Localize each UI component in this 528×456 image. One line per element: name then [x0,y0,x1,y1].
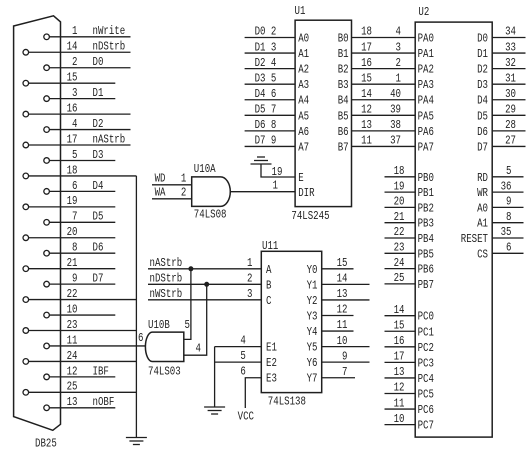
svg-text:D1: D1 [477,47,488,61]
svg-text:WR: WR [477,186,488,200]
svg-text:5: 5 [271,71,276,85]
svg-text:PC5: PC5 [418,388,434,402]
svg-text:D7: D7 [477,140,488,154]
wire U2 D1 stub [492,52,525,54]
svg-text:16: 16 [67,101,78,115]
svg-text:15: 15 [394,318,405,332]
wire U2 PC1 stub [385,330,416,332]
svg-text:B6: B6 [338,125,349,139]
wire U1 B2 to U2 PA2 [352,68,416,70]
svg-text:A0: A0 [477,201,488,215]
wire D1 to U1 A1 [245,52,296,54]
ground symbol U11 enables [204,406,225,408]
svg-text:E: E [298,171,303,185]
svg-text:14: 14 [67,40,78,54]
DB25 pin 20 contact circle [23,235,29,241]
svg-text:38: 38 [390,118,401,132]
wire DB25 pin 4 [49,129,130,131]
svg-text:A4: A4 [298,94,309,108]
svg-text:nDStrb: nDStrb [150,271,183,285]
svg-text:Y3: Y3 [307,309,318,323]
svg-text:D5: D5 [255,103,266,117]
svg-text:17: 17 [67,132,78,146]
svg-text:7: 7 [72,210,77,224]
svg-text:6: 6 [138,331,143,345]
svg-text:7: 7 [342,365,347,379]
wire U2 PB2 stub [385,206,416,208]
svg-text:5: 5 [72,148,77,162]
svg-text:13: 13 [67,395,78,409]
wire ground bus vertical [135,176,137,438]
svg-text:13: 13 [337,287,348,301]
svg-text:4: 4 [196,342,201,356]
svg-text:Y5: Y5 [307,341,318,355]
wire D3 to U1 A3 [245,83,296,85]
svg-text:3: 3 [72,86,77,100]
svg-text:D3: D3 [93,148,104,162]
svg-text:A2: A2 [298,63,309,77]
wire U2 D6 stub [492,130,525,132]
svg-text:23: 23 [394,241,405,255]
wire U2 A1 stub [492,222,523,224]
wire DB25 pin 20 [29,237,116,239]
svg-text:D0: D0 [477,32,488,46]
svg-text:D0: D0 [255,25,266,39]
svg-text:D1: D1 [93,86,104,100]
wire U11 E2 to ground bus [215,361,262,363]
svg-text:B2: B2 [338,63,349,77]
connector J1 DB25 body outline [14,16,61,431]
svg-text:11: 11 [337,318,348,332]
svg-text:29: 29 [505,103,516,117]
svg-text:PB3: PB3 [418,217,434,231]
DB25 pin 1 contact circle [44,34,50,40]
svg-text:17: 17 [394,350,405,364]
svg-text:PA6: PA6 [418,125,434,139]
wire DB25 pin 7 [49,221,115,223]
wire U2 D5 stub [492,114,525,116]
svg-text:16: 16 [361,56,372,70]
DB25 pin 5 contact circle [44,158,50,164]
svg-text:20: 20 [394,195,405,209]
DB25 pin 2 contact circle [44,65,50,71]
svg-text:PA3: PA3 [418,78,434,92]
wire WD to U10A pin 1 [152,184,192,186]
wire U2 D7 stub [492,145,525,147]
svg-text:3: 3 [271,40,276,54]
svg-text:2: 2 [181,185,186,199]
wire U2 WR stub [492,191,523,193]
svg-text:6: 6 [72,179,77,193]
wire DB25 pin 10 [49,314,115,316]
DB25 pin 25 contact circle [23,390,29,396]
svg-text:Y1: Y1 [307,278,318,292]
wire DB25 pin 2 [49,67,130,69]
wire U2 PC3 stub [385,361,416,363]
svg-text:nDStrb: nDStrb [93,40,126,54]
svg-text:D2: D2 [255,56,266,70]
svg-text:1: 1 [272,179,277,193]
svg-text:D2: D2 [93,117,104,131]
svg-text:nAStrb: nAStrb [93,132,126,146]
wire U2 RD stub [492,176,523,178]
svg-text:D6: D6 [477,125,488,139]
svg-text:30: 30 [505,87,516,101]
svg-text:PC7: PC7 [418,419,434,433]
DB25 pin 9 contact circle [44,281,50,287]
DB25 pin 23 contact circle [23,328,29,334]
svg-text:D6: D6 [93,241,104,255]
wire DB25 pin 16 [29,113,131,115]
wire DB25 pin 24 [29,360,137,362]
wire U11 Y2 stub [322,299,370,301]
svg-text:PA7: PA7 [418,140,434,154]
svg-text:Y7: Y7 [307,372,318,386]
wire DB25 pin 19 [29,206,116,208]
svg-text:6: 6 [506,241,511,255]
svg-text:U10B: U10B [148,318,170,332]
junction nDStrb / U10B-4 [205,282,209,286]
svg-text:PA0: PA0 [418,32,434,46]
DB25 pin 22 contact circle [23,297,29,303]
and-gate U10A body [192,177,231,207]
wire U1 B4 to U2 PA4 [352,99,416,101]
svg-text:9: 9 [271,134,276,148]
svg-text:74LS03: 74LS03 [148,365,181,379]
svg-text:18: 18 [394,164,405,178]
svg-text:18: 18 [67,163,78,177]
svg-text:PB6: PB6 [418,263,434,277]
wire D7 to U1 A7 [245,145,296,147]
svg-text:25: 25 [394,271,405,285]
wire U2 D3 stub [492,83,525,85]
wire DB25 pin 15 [29,82,116,84]
DB25 pin 16 contact circle [23,111,29,117]
svg-text:PA4: PA4 [418,94,434,108]
svg-text:5: 5 [185,318,190,332]
wire nAStrb to U10B pin 5 [184,269,191,340]
svg-text:D3: D3 [255,71,266,85]
junction nAStrb / U10B-5 [189,267,193,271]
svg-text:D7: D7 [93,272,104,286]
svg-text:Y0: Y0 [307,263,318,277]
svg-text:10: 10 [394,412,405,426]
svg-text:1: 1 [181,171,186,185]
DB25 pin 18 contact circle [23,173,29,179]
svg-text:2: 2 [396,56,401,70]
svg-text:D3: D3 [477,78,488,92]
svg-text:15: 15 [67,71,78,85]
DB25 pin 4 contact circle [44,127,50,133]
svg-text:33: 33 [505,40,516,54]
svg-text:PC1: PC1 [418,325,434,339]
wire DB25 pin 11 [49,345,145,347]
svg-text:PC2: PC2 [418,341,434,355]
svg-text:B1: B1 [338,47,349,61]
svg-text:36: 36 [501,179,512,193]
wire DB25 pin 3 [49,98,115,100]
svg-text:PA1: PA1 [418,47,434,61]
svg-text:D6: D6 [255,118,266,132]
wire nDStrb to U11 B [148,283,261,285]
svg-text:PB1: PB1 [418,186,434,200]
wire DB25 pin 22 [29,299,137,301]
svg-text:PB5: PB5 [418,247,434,261]
svg-text:B7: B7 [338,140,349,154]
DB25 pin 19 contact circle [23,204,29,210]
svg-text:35: 35 [501,225,512,239]
wire DB25 pin 23 [29,330,137,332]
DB25 pin 8 contact circle [44,250,50,256]
svg-text:22: 22 [394,225,405,239]
svg-text:13: 13 [361,118,372,132]
wire U2 PB3 stub [385,222,416,224]
wire DB25 pin 17 [29,144,131,146]
svg-text:PB0: PB0 [418,171,434,185]
svg-text:nOBF: nOBF [93,395,115,409]
svg-text:11: 11 [361,134,372,148]
svg-text:A7: A7 [298,140,309,154]
wire U2 D0 stub [492,37,525,39]
svg-text:21: 21 [394,210,405,224]
ground symbol left bus [126,437,147,439]
DB25 pin 17 contact circle [23,142,29,148]
wire U1 B5 to U2 PA5 [352,114,416,116]
DB25 pin 14 contact circle [23,49,29,55]
svg-text:1: 1 [247,256,252,270]
svg-text:6: 6 [240,365,245,379]
wire DB25 pin 6 [49,190,115,192]
svg-text:3: 3 [396,40,401,54]
svg-text:37: 37 [390,134,401,148]
svg-text:31: 31 [505,71,516,85]
wire U2 D4 stub [492,99,525,101]
svg-text:2: 2 [72,55,77,69]
wire U11 Y1 stub [322,283,370,285]
svg-text:14: 14 [337,272,348,286]
svg-text:U10A: U10A [194,162,216,176]
svg-text:PA5: PA5 [418,109,434,123]
svg-text:B4: B4 [338,94,349,108]
svg-text:B: B [266,278,271,292]
svg-text:5: 5 [240,349,245,363]
svg-text:DB25: DB25 [35,437,57,451]
svg-text:U11: U11 [262,239,278,253]
svg-text:74LS08: 74LS08 [194,207,227,221]
nand-gate U10B body [145,332,183,361]
svg-text:U1: U1 [295,4,306,18]
svg-text:10: 10 [337,334,348,348]
svg-text:25: 25 [67,380,78,394]
svg-text:D5: D5 [93,210,104,224]
wire U1 B0 to U2 PA0 [352,37,416,39]
wire DB25 pin 12 [49,376,115,378]
wire U11 Y3 stub [322,314,354,316]
wire U11 Y4 stub [322,330,354,332]
wire U1 B7 to U2 PA7 [352,145,416,147]
wire U11 E3 to VCC [245,378,261,408]
svg-text:nAStrb: nAStrb [150,256,183,270]
wire DB25 pin 13 [49,407,115,409]
svg-text:A: A [266,263,272,277]
svg-text:1: 1 [72,24,77,38]
svg-text:6: 6 [271,87,276,101]
wire DB25 pin 1 [49,36,130,38]
svg-text:A6: A6 [298,125,309,139]
svg-text:12: 12 [361,103,372,117]
svg-text:DIR: DIR [298,186,314,200]
DB25 pin 6 contact circle [44,189,50,195]
svg-text:40: 40 [390,87,401,101]
svg-text:E3: E3 [266,372,277,386]
svg-text:19: 19 [67,194,78,208]
svg-text:14: 14 [361,87,372,101]
svg-text:8: 8 [72,241,77,255]
svg-text:7: 7 [271,103,276,117]
svg-text:3: 3 [247,287,252,301]
svg-text:CS: CS [477,247,488,261]
svg-text:D5: D5 [477,109,488,123]
svg-text:D2: D2 [477,63,488,77]
wire U2 PC4 stub [385,377,416,379]
wire nWStrb to U11 C [148,299,261,301]
wire U11 Y0 stub [322,268,354,270]
svg-text:B0: B0 [338,32,349,46]
DB25 pin 15 contact circle [23,80,29,86]
svg-text:A5: A5 [298,109,309,123]
svg-text:17: 17 [361,40,372,54]
svg-text:VCC: VCC [238,410,254,424]
svg-text:12: 12 [394,381,405,395]
svg-text:28: 28 [505,118,516,132]
svg-text:WD: WD [155,171,166,185]
svg-text:Y2: Y2 [307,294,318,308]
svg-text:4: 4 [396,25,401,39]
svg-text:A1: A1 [298,47,309,61]
svg-text:D4: D4 [477,94,488,108]
svg-text:8: 8 [271,118,276,132]
wire D2 to U1 A2 [245,68,296,70]
svg-text:20: 20 [67,225,78,239]
wire D4 to U1 A4 [245,99,296,101]
wire DB25 pin 25 [29,391,137,393]
DB25 pin 7 contact circle [44,219,50,225]
svg-text:22: 22 [67,287,78,301]
svg-text:PB2: PB2 [418,201,434,215]
DB25 pin 24 contact circle [23,359,29,365]
svg-text:PC0: PC0 [418,310,434,324]
ground symbol U1 E [251,163,272,165]
svg-text:15: 15 [337,256,348,270]
svg-text:PC3: PC3 [418,356,434,370]
svg-text:19: 19 [394,179,405,193]
svg-text:C: C [266,294,271,308]
svg-text:10: 10 [67,302,78,316]
svg-text:nWrite: nWrite [93,24,126,38]
wire D5 to U1 A5 [245,114,296,116]
wire U11 E1 to ground bus [215,346,262,348]
DB25 pin 10 contact circle [44,312,50,318]
wire U2 PC0 stub [385,315,416,317]
svg-text:39: 39 [390,103,401,117]
wire U2 PB6 stub [385,268,416,270]
svg-text:4: 4 [271,56,276,70]
DB25 pin 12 contact circle [44,374,50,380]
svg-text:A1: A1 [477,217,488,231]
svg-text:74LS245: 74LS245 [291,209,329,223]
svg-text:D7: D7 [255,134,266,148]
svg-text:nWStrb: nWStrb [150,287,183,301]
svg-text:D4: D4 [93,179,104,193]
ic U2 body [415,22,492,437]
ic U11 body [261,251,321,392]
svg-text:9: 9 [506,195,511,209]
svg-text:12: 12 [337,303,348,317]
svg-text:4: 4 [240,334,245,348]
svg-text:RD: RD [477,171,488,185]
svg-text:34: 34 [505,25,516,39]
wire U2 CS stub [492,252,523,254]
svg-text:RESET: RESET [461,232,488,246]
svg-text:12: 12 [67,364,78,378]
wire U2 PC2 stub [385,346,416,348]
svg-text:D0: D0 [93,55,104,69]
svg-text:9: 9 [342,349,347,363]
wire D6 to U1 A6 [245,130,296,132]
wire DB25 pin 5 [49,159,115,161]
wire WA to U10A pin 2 [152,198,192,200]
svg-text:1: 1 [396,71,401,85]
wire U1 B3 to U2 PA3 [352,83,416,85]
svg-text:21: 21 [67,256,78,270]
wire DB25 pin 8 [49,252,115,254]
wire U2 PC5 stub [385,393,416,395]
svg-text:U2: U2 [418,5,429,19]
svg-text:11: 11 [67,333,78,347]
svg-text:16: 16 [394,334,405,348]
wire U2 PB7 stub [385,283,416,285]
svg-text:13: 13 [394,365,405,379]
svg-text:2: 2 [271,25,276,39]
svg-text:WA: WA [155,185,167,199]
svg-text:5: 5 [506,164,511,178]
svg-text:Y4: Y4 [307,325,318,339]
svg-text:IBF: IBF [93,364,109,378]
svg-text:PC6: PC6 [418,403,434,417]
wire nDStrb to U10B pin 4 [184,284,207,355]
svg-text:24: 24 [67,349,78,363]
svg-text:D4: D4 [255,87,266,101]
svg-text:24: 24 [394,256,405,270]
svg-text:18: 18 [361,25,372,39]
wire E1-E2 ground vertical [214,347,216,407]
svg-text:A0: A0 [298,32,309,46]
svg-text:E2: E2 [266,356,277,370]
wire U2 PB5 stub [385,252,416,254]
svg-text:PA2: PA2 [418,63,434,77]
wire D0 to U1 A0 [245,37,296,39]
wire U1 B6 to U2 PA6 [352,130,416,132]
svg-text:9: 9 [72,272,77,286]
svg-text:19: 19 [272,165,283,179]
wire U11 Y6 stub [322,361,370,363]
svg-text:D1: D1 [255,40,266,54]
DB25 pin 11 contact circle [44,343,50,349]
svg-text:14: 14 [394,303,405,317]
svg-text:PB7: PB7 [418,278,434,292]
wire U2 PB4 stub [385,237,416,239]
svg-text:Y6: Y6 [307,356,318,370]
